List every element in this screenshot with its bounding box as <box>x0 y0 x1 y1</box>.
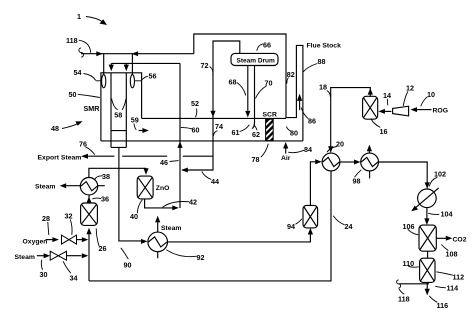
valve 34 <box>50 251 66 260</box>
wire air inlet <box>281 142 291 162</box>
label 34 <box>63 261 77 282</box>
vessel 106 (CO2 removal) <box>419 225 436 251</box>
svg-text:102: 102 <box>434 170 446 179</box>
svg-text:40: 40 <box>130 212 138 221</box>
SCR catalyst 78 <box>263 112 277 141</box>
wire export steam header 46 <box>38 154 214 162</box>
label 38 <box>95 172 110 181</box>
cooler 102 (circle with diagonal arrow) <box>411 188 439 211</box>
svg-text:Oxygen: Oxygen <box>23 239 48 246</box>
label 88 <box>303 57 325 72</box>
heat exchanger 98 <box>361 145 379 179</box>
wire product outlet 116 <box>425 282 430 295</box>
wire flue duct bottom <box>101 140 303 142</box>
wire enclosure around steam drum <box>194 34 297 118</box>
svg-text:74: 74 <box>215 122 223 131</box>
flue stack <box>296 43 341 141</box>
label 10 <box>421 90 435 106</box>
label 20 <box>327 140 344 153</box>
label 66 <box>257 41 271 51</box>
vessel 16 <box>363 96 378 119</box>
svg-text:46: 46 <box>160 158 168 167</box>
vessel 94 (methanator) <box>303 205 318 228</box>
wire tube feed header <box>109 63 180 71</box>
svg-text:38: 38 <box>102 172 110 181</box>
label 16 <box>371 119 388 137</box>
svg-text:18: 18 <box>319 83 327 92</box>
label 36 <box>92 195 109 204</box>
label 46 <box>160 158 179 167</box>
label 30 <box>40 260 48 279</box>
svg-text:72: 72 <box>201 61 209 70</box>
wire drum downcomer 68 <box>245 66 250 118</box>
wire tube product line 90 <box>119 147 142 241</box>
svg-text:SCR: SCR <box>263 112 277 119</box>
svg-text:SMR: SMR <box>84 104 101 113</box>
heat exchanger 38 <box>35 178 105 195</box>
label 98 <box>353 170 362 186</box>
wire fuel line 118 to furnace <box>81 51 194 56</box>
svg-text:Steam Drum: Steam Drum <box>237 57 276 64</box>
svg-text:94: 94 <box>287 222 295 231</box>
wire ROG inlet 10 <box>411 107 448 114</box>
wire CO2 outlet <box>436 236 466 244</box>
label 18 <box>319 83 330 97</box>
label 54 <box>74 68 96 80</box>
flue flow arrow 59 <box>139 128 149 133</box>
label 26 <box>96 228 106 253</box>
svg-text:92: 92 <box>197 253 205 262</box>
label 70 <box>255 79 272 99</box>
svg-text:86: 86 <box>308 117 316 126</box>
wire vessel 94 to HX20 <box>310 159 321 205</box>
label 82 <box>287 70 295 84</box>
wire burner drop left <box>103 54 105 75</box>
svg-text:10: 10 <box>427 90 435 99</box>
label 90 <box>121 248 132 270</box>
steam drum U66 <box>231 53 278 65</box>
svg-text:20: 20 <box>336 140 344 149</box>
label 1 with arrow <box>77 12 107 25</box>
wire burner drop right <box>131 54 133 75</box>
vessel 110 (PSA) <box>420 258 435 282</box>
wire 104 <box>424 208 429 225</box>
wire ZnO outlet 42 <box>145 199 179 211</box>
svg-text:CO2: CO2 <box>453 237 467 244</box>
svg-text:24: 24 <box>345 222 353 231</box>
svg-text:42: 42 <box>189 198 197 207</box>
label 116 <box>429 296 448 310</box>
label 92 <box>166 250 204 262</box>
label 58 with braces <box>112 99 126 120</box>
svg-text:48: 48 <box>51 124 59 133</box>
label 44 <box>202 171 219 186</box>
svg-text:34: 34 <box>70 274 78 283</box>
wire 18 (vessel 16 to HX20) <box>328 88 373 153</box>
svg-text:80: 80 <box>290 129 298 138</box>
label 52 <box>191 99 199 117</box>
label 84 <box>288 145 312 154</box>
wire HX92 to vessel 94 <box>168 228 314 242</box>
wire HX38/ZnO branch <box>89 168 149 177</box>
wire steam line (valve 34) <box>15 253 89 261</box>
svg-text:36: 36 <box>101 195 109 204</box>
label 114 <box>435 284 458 293</box>
heat exchanger 92 <box>148 216 182 258</box>
svg-text:118: 118 <box>66 36 78 45</box>
svg-text:54: 54 <box>74 68 82 77</box>
wire 106 to 110 <box>427 251 429 258</box>
svg-text:68: 68 <box>229 78 237 87</box>
label 32 <box>65 212 73 235</box>
svg-text:116: 116 <box>437 301 449 310</box>
label 78 <box>252 144 269 164</box>
svg-text:Steam: Steam <box>161 225 181 232</box>
svg-text:66: 66 <box>263 41 271 50</box>
reformer tube 58 <box>111 73 126 148</box>
label 72 <box>201 61 213 76</box>
wire flue duct top <box>142 117 286 119</box>
svg-text:28: 28 <box>42 214 50 223</box>
svg-text:90: 90 <box>124 261 132 270</box>
label 60 <box>181 126 200 135</box>
svg-text:88: 88 <box>318 57 326 66</box>
svg-text:84: 84 <box>304 145 312 154</box>
valve 32 <box>62 235 77 244</box>
label 74 <box>213 122 223 136</box>
vessel 26 (ATR) <box>81 203 98 225</box>
label 50 <box>69 90 100 99</box>
label 56 <box>141 72 156 81</box>
SMR furnace box <box>101 73 142 141</box>
svg-text:30: 30 <box>40 270 48 279</box>
label 28 <box>42 214 50 235</box>
label 112 <box>436 272 464 282</box>
svg-text:26: 26 <box>99 244 107 253</box>
svg-text:61: 61 <box>232 128 240 137</box>
wire drum feed 72 <box>181 41 240 173</box>
wire vessel 36 to HX38 <box>86 195 91 203</box>
svg-text:Air: Air <box>281 155 291 162</box>
label 68 <box>229 78 246 96</box>
svg-text:16: 16 <box>380 127 388 136</box>
svg-text:118: 118 <box>398 295 410 304</box>
label 48 with arrow <box>51 121 83 133</box>
svg-text:59: 59 <box>131 115 139 124</box>
ZnO vessel 40 <box>137 176 169 199</box>
label 12 <box>403 84 414 107</box>
svg-text:Flue Stock: Flue Stock <box>307 43 342 50</box>
label 94 <box>287 219 302 231</box>
label 40 <box>130 200 142 221</box>
label 59 <box>131 115 139 130</box>
svg-text:44: 44 <box>211 177 219 186</box>
svg-text:78: 78 <box>252 155 260 164</box>
label 62 <box>252 125 260 140</box>
burner 56 (right ellipse) <box>130 75 141 88</box>
wire 110 bottom recycle 118 <box>397 280 429 288</box>
label 24 <box>333 216 352 231</box>
wire HX20 to HX98 <box>340 160 361 165</box>
svg-text:52: 52 <box>191 99 199 108</box>
svg-text:62: 62 <box>252 130 260 139</box>
svg-text:104: 104 <box>441 210 453 219</box>
svg-text:98: 98 <box>353 177 361 186</box>
wire oxygen line <box>23 237 89 245</box>
wire vessel 26 bottom feed <box>86 228 91 281</box>
wire HX98 to cooler 102 <box>379 162 430 189</box>
svg-text:56: 56 <box>149 72 157 81</box>
compressor 12 <box>393 106 409 116</box>
svg-text:Export Steam: Export Steam <box>38 155 82 162</box>
svg-text:112: 112 <box>453 273 465 282</box>
label 110 <box>403 259 419 268</box>
svg-text:32: 32 <box>65 212 73 221</box>
svg-text:58: 58 <box>114 111 122 120</box>
svg-text:12: 12 <box>406 84 414 93</box>
label 108 <box>441 245 457 259</box>
label 42 <box>163 198 198 208</box>
label 76 <box>79 140 95 155</box>
wire drum riser 70 <box>252 66 255 129</box>
svg-text:1: 1 <box>77 12 81 21</box>
svg-text:14: 14 <box>383 91 391 100</box>
label 118 (bottom break) <box>398 288 410 303</box>
burner 54 (left ellipse) <box>96 75 106 88</box>
wire main feed riser 60 <box>177 63 182 208</box>
svg-text:108: 108 <box>446 250 458 259</box>
svg-text:ZnO: ZnO <box>156 185 170 192</box>
label 86 <box>301 108 316 126</box>
svg-text:114: 114 <box>447 284 459 293</box>
wire compressor discharge 14 <box>378 109 391 114</box>
label 14 <box>383 91 391 105</box>
label 102 <box>429 170 446 187</box>
svg-text:60: 60 <box>192 126 200 135</box>
svg-text:Steam: Steam <box>15 254 35 261</box>
svg-text:Steam: Steam <box>35 184 55 191</box>
node 118 (fuel inlet, break symbol) <box>66 36 91 57</box>
label 80 <box>286 127 298 138</box>
label 104 <box>428 210 452 219</box>
label 61 <box>232 125 250 137</box>
label 106 <box>403 222 419 235</box>
heat exchanger 20 <box>322 153 340 171</box>
svg-text:50: 50 <box>69 90 77 99</box>
wire 24 recycle (HX20 bottom to loop) <box>89 171 331 281</box>
svg-text:ROG: ROG <box>433 108 448 115</box>
